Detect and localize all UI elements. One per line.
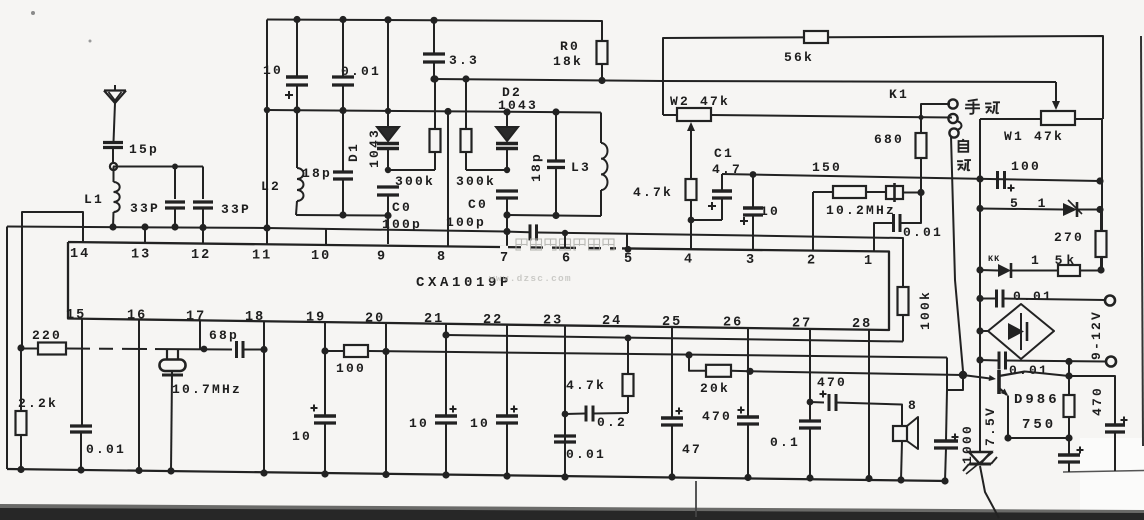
svg-text:16: 16: [127, 309, 147, 324]
node antenna/L1: [110, 163, 117, 170]
wire vertical pin11 column: [266, 20, 268, 244]
resistor 750: [1068, 362, 1070, 396]
svg-text:15p: 15p: [129, 142, 159, 157]
wire pin19 line drop to 1000uF: [946, 358, 948, 391]
wire C1/pin3 line: [722, 174, 1100, 181]
svg-text:10.2MHz: 10.2MHz: [826, 203, 896, 218]
pin16 column: [138, 320, 140, 471]
svg-text:100k: 100k: [918, 290, 933, 330]
wire zener to bottom edge: [980, 466, 999, 518]
svg-text:22: 22: [483, 313, 503, 328]
svg-text:18p: 18p: [529, 152, 544, 182]
wire pin14 to left column: [22, 212, 83, 348]
capacitor 0.01 series (pin7 to pin1 bus): [529, 224, 532, 240]
svg-text:26: 26: [723, 315, 743, 330]
svg-text:L3: L3: [571, 160, 591, 175]
svg-text:2.2k: 2.2k: [18, 396, 58, 411]
wire bus under IC (pin21 to 100k): [446, 335, 903, 342]
svg-text:KK: KK: [988, 254, 1000, 264]
svg-text:17: 17: [186, 309, 206, 324]
W2 wiper arrow to pin4: [690, 129, 692, 179]
IC CXA1019 body: [68, 242, 889, 330]
svg-text:680: 680: [874, 132, 904, 147]
svg-text:www.dzsc.com: www.dzsc.com: [489, 273, 572, 284]
pin20 column: [385, 323, 387, 475]
svg-text:2: 2: [807, 253, 817, 268]
scan speckle top-left: [31, 11, 35, 15]
svg-text:10: 10: [470, 416, 490, 431]
bottom dark scanner band: [0, 506, 1144, 520]
capacitor 15p: [103, 141, 123, 144]
wire left edge vertical: [6, 227, 8, 470]
svg-text:1: 1: [864, 254, 874, 269]
svg-text:10: 10: [760, 204, 780, 219]
svg-text:11: 11: [252, 249, 272, 264]
svg-text:21: 21: [424, 312, 444, 327]
svg-text:4.7k: 4.7k: [566, 378, 606, 393]
svg-text:300k: 300k: [456, 174, 496, 189]
pin23 column: [564, 326, 566, 478]
svg-text:100: 100: [1011, 159, 1041, 174]
svg-text:10: 10: [263, 63, 283, 78]
svg-text:0.01: 0.01: [903, 225, 943, 240]
svg-text:4.7k: 4.7k: [633, 185, 673, 200]
svg-text:C0: C0: [392, 200, 412, 215]
svg-text:9-12V: 9-12V: [1089, 310, 1104, 360]
wire collector rail: [1025, 372, 1115, 425]
svg-text:28: 28: [852, 317, 872, 332]
svg-text:18: 18: [245, 310, 265, 325]
scan fade gaps on IC top edge: [500, 246, 508, 251]
svg-text:18k: 18k: [553, 54, 583, 69]
svg-text:270: 270: [1054, 230, 1084, 245]
svg-text:K1: K1: [889, 87, 909, 102]
svg-text:R0: R0: [560, 39, 580, 54]
bridge rectifier diamond: [988, 304, 1054, 359]
svg-text:150: 150: [812, 160, 842, 175]
svg-text:33P: 33P: [130, 201, 160, 216]
pin7 column: [506, 215, 508, 246]
svg-text:6: 6: [562, 251, 572, 266]
terminal circle -: [1106, 357, 1116, 367]
svg-text:12: 12: [191, 248, 211, 263]
svg-text:56k: 56k: [784, 50, 814, 65]
svg-text:100p: 100p: [446, 215, 486, 230]
svg-text:10.7MHz: 10.7MHz: [172, 382, 242, 397]
right page edge: [1141, 36, 1143, 446]
ground bus: [7, 469, 948, 481]
svg-text:9: 9: [377, 250, 387, 265]
diode (51 row): [1063, 203, 1077, 216]
wire D2/18p/L3 bottom: [507, 215, 601, 216]
svg-text:3.3: 3.3: [449, 53, 479, 68]
svg-text:0.01: 0.01: [1013, 289, 1053, 304]
svg-text:L2: L2: [261, 179, 281, 194]
watermark: [516, 239, 527, 250]
svg-text:W2 47k: W2 47k: [670, 94, 730, 109]
pin17 stub: [199, 320, 201, 349]
wire long bus pins11-5 to 100k: [7, 227, 529, 233]
svg-text:13: 13: [131, 248, 151, 263]
svg-text:0.01: 0.01: [1009, 363, 1049, 378]
svg-text:C0: C0: [468, 197, 488, 212]
svg-text:300k: 300k: [395, 174, 435, 189]
svg-text:23: 23: [543, 313, 563, 328]
svg-text:14: 14: [70, 247, 90, 262]
svg-text:33P: 33P: [221, 202, 251, 217]
svg-text:20k: 20k: [700, 381, 730, 396]
svg-text:3: 3: [746, 253, 756, 268]
svg-text:7: 7: [500, 251, 510, 266]
ground right segment: [1063, 471, 1144, 473]
svg-text:0.01: 0.01: [566, 447, 606, 462]
svg-text:D986: D986: [1014, 392, 1060, 408]
svg-text:100: 100: [336, 361, 366, 376]
fold mark bottom: [695, 481, 697, 517]
svg-text:470: 470: [1090, 386, 1105, 416]
svg-text:D1: D1: [346, 142, 361, 162]
svg-text:8: 8: [908, 398, 916, 413]
svg-text:20: 20: [365, 311, 385, 326]
pin18 column: [263, 321, 265, 473]
svg-text:18p: 18p: [302, 166, 332, 181]
svg-text:W1 47k: W1 47k: [1004, 129, 1064, 144]
right vertical (W1 right / 270): [1101, 119, 1103, 270]
svg-text:470: 470: [702, 409, 732, 424]
svg-text:10: 10: [409, 416, 429, 431]
wire L2/18p/C0 bottom: [296, 214, 388, 217]
svg-text:7.5V: 7.5V: [983, 406, 998, 446]
svg-text:5: 5: [624, 252, 634, 267]
pin stubs top: [144, 227, 146, 243]
svg-text:1000: 1000: [960, 424, 975, 464]
svg-text:19: 19: [306, 311, 326, 326]
base node: [959, 371, 967, 379]
terminal circle +: [1105, 296, 1115, 306]
svg-text:0.1: 0.1: [770, 435, 800, 450]
svg-text:0.01: 0.01: [86, 442, 126, 457]
wire AFC line: [434, 79, 1056, 82]
wire top supply bus: [267, 20, 602, 42]
svg-text:0.2: 0.2: [597, 415, 627, 430]
pin9 stub: [387, 216, 389, 245]
wire bus2: [267, 110, 601, 113]
svg-text:24: 24: [602, 314, 622, 329]
text 手动: [968, 99, 978, 101]
svg-text:4: 4: [684, 252, 694, 267]
svg-text:15: 15: [66, 308, 86, 323]
svg-text:750: 750: [1022, 417, 1056, 433]
svg-text:470: 470: [817, 375, 847, 390]
right-side bus (from W1 left): [979, 119, 981, 375]
svg-text:47: 47: [682, 442, 702, 457]
svg-text:8: 8: [437, 250, 447, 265]
svg-text:10: 10: [292, 429, 312, 444]
svg-text:68p: 68p: [209, 328, 239, 343]
capacitor (emitter) electrolytic: [1068, 438, 1070, 454]
wire K1 to base node: [951, 136, 963, 375]
svg-text:L1: L1: [84, 192, 104, 207]
svg-text:220: 220: [32, 328, 62, 343]
wire D1 to 300k: [388, 169, 435, 171]
text 自动 vertical: [962, 139, 963, 141]
svg-text:C1: C1: [714, 146, 734, 161]
antenna: [104, 89, 126, 91]
pin28 column: [868, 330, 870, 479]
wire base feed: [750, 371, 963, 375]
svg-text:10: 10: [311, 249, 331, 264]
